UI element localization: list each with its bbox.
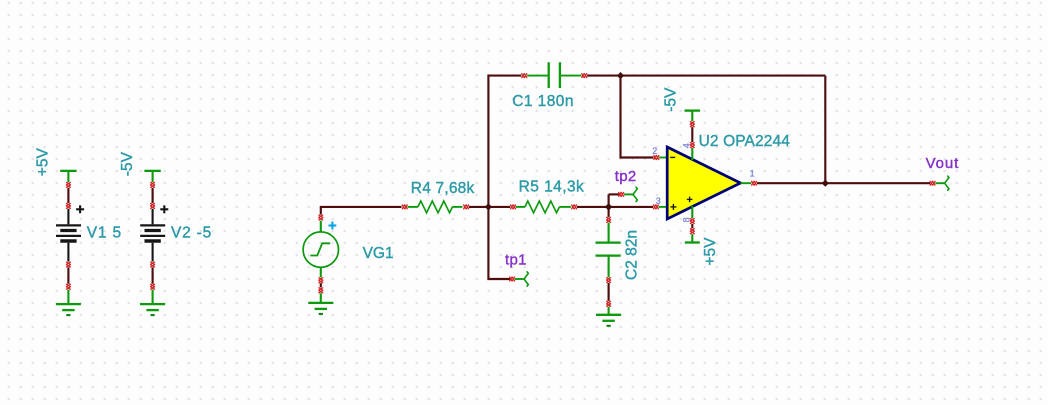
svg-text:tp1: tp1 — [505, 251, 527, 268]
svg-text:-5V: -5V — [662, 87, 679, 112]
svg-text:8: 8 — [682, 217, 692, 222]
svg-text:tp2: tp2 — [615, 168, 637, 185]
svg-text:+5V: +5V — [702, 237, 719, 266]
svg-text:2: 2 — [652, 146, 657, 156]
svg-text:Vout: Vout — [926, 155, 960, 172]
svg-text:V2 -5: V2 -5 — [171, 224, 212, 241]
svg-text:R5 14,3k: R5 14,3k — [519, 179, 585, 196]
svg-text:1: 1 — [750, 169, 755, 179]
svg-text:C2 82n: C2 82n — [623, 230, 640, 280]
svg-text:3: 3 — [656, 196, 661, 206]
svg-text:C1 180n: C1 180n — [512, 93, 574, 110]
svg-text:+5V: +5V — [34, 148, 51, 177]
svg-text:-5V: -5V — [119, 151, 136, 176]
svg-text:VG1: VG1 — [363, 245, 394, 262]
svg-text:R4 7,68k: R4 7,68k — [411, 180, 475, 197]
svg-text:U2 OPA2244: U2 OPA2244 — [699, 133, 791, 150]
svg-text:V1 5: V1 5 — [87, 224, 122, 241]
svg-text:4: 4 — [681, 143, 691, 148]
